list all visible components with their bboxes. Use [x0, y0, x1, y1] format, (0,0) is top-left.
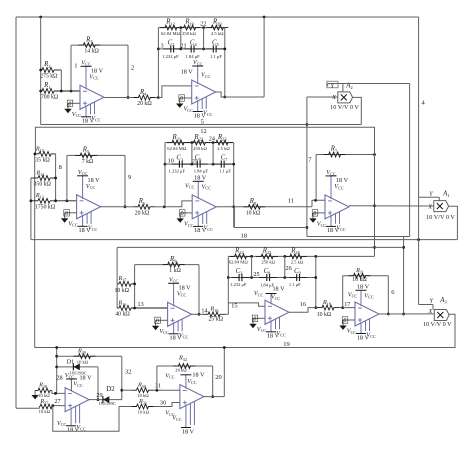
- node 28 label: [56, 375, 62, 382]
- svg-text:275 kΩ: 275 kΩ: [40, 73, 58, 79]
- op-amp U1: [64, 59, 104, 124]
- wire D2 riser node32: [120, 356, 123, 399]
- wire U8 minus: [343, 307, 355, 309]
- resistor R14: [31, 176, 56, 181]
- svg-text:10 kΩ: 10 kΩ: [317, 312, 332, 318]
- svg-text:17: 17: [344, 301, 350, 308]
- svg-text:62.84 MΩ: 62.84 MΩ: [161, 31, 181, 36]
- node 14 label: [201, 307, 207, 314]
- svg-text:20 kΩ: 20 kΩ: [135, 210, 150, 216]
- resistor R9 feedback: [135, 262, 199, 267]
- resistor R11 labels: [352, 267, 367, 283]
- resistor R19: [179, 25, 201, 30]
- resistor R26: [285, 254, 307, 259]
- resistor R21: [167, 140, 189, 145]
- node 9 label: [128, 174, 131, 181]
- wire RC2 top rail: [165, 141, 234, 144]
- node 7 label: [308, 157, 312, 164]
- resistor R25 labels: [261, 248, 275, 265]
- resistor R20: [206, 25, 228, 30]
- svg-text:20 kΩ: 20 kΩ: [175, 367, 187, 372]
- wire R9 right riser: [198, 265, 201, 316]
- svg-text:250 kΩ: 250 kΩ: [193, 146, 207, 151]
- wire bottom detour rail: [53, 406, 119, 432]
- resistor R1 labels: [41, 82, 59, 100]
- capacitor C1: [172, 161, 190, 168]
- wire U9 output: [89, 399, 98, 401]
- resistor R12 labels: [161, 19, 181, 36]
- capacitor C7: [214, 161, 232, 168]
- wire net18 riser: [233, 207, 235, 228]
- wire U8 output: [379, 313, 434, 315]
- node 11 label: [288, 198, 294, 205]
- resistor R1: [41, 89, 80, 94]
- wire U5 output: [349, 205, 434, 207]
- op-amp U10: [165, 371, 205, 435]
- svg-text:20 kΩ: 20 kΩ: [137, 101, 152, 107]
- wire R13R14 left vertical: [30, 178, 33, 240]
- wire net4 right vertical: [418, 17, 420, 197]
- svg-text:14: 14: [201, 307, 207, 314]
- diode D1: [57, 364, 98, 371]
- svg-text:1N1199C: 1N1199C: [98, 401, 116, 406]
- wire R11 left riser: [342, 276, 344, 308]
- node 27 label: [54, 398, 60, 405]
- op-amp U5: [309, 169, 349, 234]
- resistor R11 feedback: [343, 273, 389, 278]
- resistor R12: [160, 25, 182, 30]
- node 8 label: [59, 164, 62, 171]
- resistor R32 feedback: [157, 364, 213, 369]
- svg-text:250 kΩ: 250 kΩ: [182, 31, 196, 36]
- svg-text:12: 12: [200, 128, 206, 135]
- svg-text:29: 29: [96, 392, 102, 399]
- wire RC2 cap rail: [165, 163, 234, 166]
- wire net18 horizontal: [234, 227, 307, 229]
- resistor R2: [41, 68, 62, 73]
- svg-text:7 kΩ: 7 kΩ: [82, 159, 94, 165]
- svg-text:14 kΩ: 14 kΩ: [84, 49, 99, 55]
- wire R15R14 right riser node8: [54, 154, 57, 201]
- resistor R22: [188, 140, 210, 145]
- svg-text:1.232 μF: 1.232 μF: [169, 168, 186, 173]
- wire RC3 cap rail: [228, 276, 315, 279]
- resistor R16: [117, 306, 168, 311]
- capacitor C3: [232, 274, 250, 281]
- wire A3 output loop: [35, 314, 455, 347]
- wire A1 Y: [419, 197, 440, 200]
- diode D2: [98, 396, 122, 403]
- wire RC2 riser a: [191, 143, 193, 165]
- wire R28 gnd: [31, 391, 38, 400]
- svg-text:19: 19: [283, 341, 290, 348]
- wire U1 output: [104, 97, 128, 99]
- capacitor C1 labels: [169, 155, 186, 174]
- capacitor C5 labels: [210, 39, 222, 59]
- diode D2 labels: [98, 386, 116, 406]
- wire RC3 riser b: [284, 256, 286, 277]
- wire left border vertical: [15, 17, 17, 408]
- capacitor C3 labels: [230, 268, 247, 287]
- node 26 label: [286, 265, 292, 272]
- resistor R6 labels: [135, 198, 150, 216]
- resistor R10 labels: [208, 305, 223, 322]
- wire RC1 right riser: [223, 28, 226, 99]
- resistor R5 labels: [82, 147, 94, 165]
- node 16 label: [300, 301, 306, 308]
- wire R7 left riser: [315, 155, 317, 201]
- resistor R4 labels: [137, 89, 152, 107]
- svg-text:1 kΩ: 1 kΩ: [169, 268, 181, 274]
- svg-text:10 kΩ: 10 kΩ: [77, 360, 89, 365]
- capacitor C2: [163, 45, 181, 52]
- svg-text:13: 13: [138, 301, 144, 308]
- node 30 label: [160, 400, 166, 407]
- resistor R30 labels: [137, 381, 149, 398]
- svg-text:62.84 MΩ: 62.84 MΩ: [229, 260, 249, 265]
- resistor R9 labels: [169, 256, 181, 274]
- diode D1 labels: [67, 359, 87, 376]
- wire U3 output: [101, 206, 125, 208]
- wire A2 Y: [327, 81, 343, 92]
- capacitor C4: [184, 45, 202, 52]
- svg-text:1.232 μF: 1.232 μF: [230, 282, 247, 287]
- node 20 label: [215, 374, 222, 381]
- node 29 label: [96, 392, 102, 399]
- wire RC3 left riser: [227, 256, 230, 303]
- resistor R24: [230, 254, 252, 259]
- wire RC3 top rail: [228, 255, 374, 258]
- wire U6 output: [192, 313, 199, 315]
- wire R32 right riser: [211, 366, 214, 398]
- wire R30 riser to R32: [156, 366, 158, 390]
- svg-text:250 kΩ: 250 kΩ: [261, 260, 275, 265]
- resistor R7 feedback: [316, 152, 376, 157]
- node 6 label: [391, 289, 395, 296]
- wire RC1 riser 21: [180, 28, 182, 49]
- svg-text:31: 31: [155, 383, 161, 390]
- multiplier A1: [434, 201, 449, 212]
- resistor R17: [117, 282, 135, 287]
- svg-text:22: 22: [200, 21, 206, 28]
- wire L3 left riser to R17: [116, 248, 118, 284]
- wire RC2 right riser: [232, 143, 235, 228]
- svg-text:9: 9: [128, 174, 131, 181]
- node 22 label: [200, 21, 206, 28]
- capacitor C5: [206, 45, 224, 52]
- wire D1 right riser: [97, 367, 100, 401]
- node 25 label: [253, 271, 259, 278]
- wire RC1 top rail: [158, 26, 224, 29]
- op-amp U4: [177, 174, 217, 234]
- resistor R14 labels: [34, 169, 52, 187]
- op-amp U3: [61, 169, 101, 234]
- wire net19 left vertical: [34, 153, 37, 348]
- wire A3 output riser left: [55, 346, 58, 393]
- resistor R5 feedback: [67, 153, 125, 158]
- node 2 label: [131, 65, 134, 72]
- multiplier A3: [434, 310, 449, 321]
- wire R11 right riser: [387, 276, 390, 316]
- svg-text:1.84 μF: 1.84 μF: [194, 168, 209, 173]
- capacitor C9 labels: [289, 268, 302, 287]
- svg-text:16: 16: [300, 301, 306, 308]
- node 24 label: [209, 136, 215, 143]
- svg-text:2: 2: [131, 65, 134, 72]
- svg-text:25: 25: [253, 271, 259, 278]
- wire RC1 cap rail: [158, 48, 224, 51]
- resistor R8 labels: [246, 198, 261, 216]
- svg-text:1750 kΩ: 1750 kΩ: [35, 205, 56, 211]
- node 31 label: [155, 383, 161, 390]
- wire U4 output: [216, 206, 312, 208]
- resistor R3 labels: [84, 36, 99, 54]
- node 19 label: [283, 341, 290, 348]
- node 10 label: [168, 157, 174, 164]
- svg-text:26: 26: [286, 265, 292, 272]
- svg-text:18 V: 18 V: [357, 283, 370, 290]
- svg-text:10 V/V 0 V: 10 V/V 0 V: [330, 104, 359, 111]
- multiplier A3 labels: [423, 297, 452, 328]
- wire R4 to U2 jog: [158, 86, 191, 98]
- wire R8 to U5 jog: [312, 199, 325, 207]
- resistor R20 labels: [211, 19, 224, 36]
- resistor R13: [31, 198, 77, 203]
- wire R6 to U4 jog: [164, 201, 192, 207]
- capacitor C6: [190, 161, 208, 168]
- resistor R3 feedback: [71, 43, 128, 48]
- resistor R30: [122, 388, 180, 393]
- svg-text:350 kΩ: 350 kΩ: [34, 182, 52, 188]
- wire RC3 riser a: [251, 256, 253, 277]
- multiplier A1 labels: [426, 190, 455, 221]
- node 1 label: [74, 63, 77, 70]
- resistor R28 labels: [38, 382, 50, 399]
- wire U7 output: [289, 308, 316, 313]
- wire RC3 right riser: [314, 256, 317, 309]
- svg-text:0: 0: [254, 316, 257, 322]
- wire R17 R16 risers: [117, 284, 136, 310]
- resistor R15 labels: [35, 145, 51, 163]
- op-amp U7: [249, 286, 289, 340]
- svg-text:62.84 MΩ: 62.84 MΩ: [167, 146, 187, 151]
- node 32 label: [125, 368, 132, 375]
- resistor R2 labels: [40, 61, 58, 79]
- resistor R24 labels: [229, 248, 249, 265]
- svg-text:20: 20: [215, 374, 222, 381]
- svg-text:10 V/V 0 V: 10 V/V 0 V: [426, 214, 455, 221]
- resistor R8: [243, 204, 265, 209]
- wire U2 out riser to top rail: [263, 17, 265, 97]
- wire A1 to A3 vertical: [418, 197, 420, 304]
- capacitor C8 labels: [260, 268, 275, 288]
- wire net4 top rail: [16, 16, 419, 19]
- capacitor C9: [289, 274, 307, 281]
- wire R10 riser node15: [227, 303, 229, 314]
- capacitor C8: [259, 274, 277, 281]
- svg-text:18 V: 18 V: [272, 286, 285, 293]
- node 1 riser: [70, 45, 72, 91]
- wire left border to R27: [16, 407, 37, 409]
- resistor R23: [211, 140, 233, 145]
- wire A2 X riser: [306, 97, 309, 237]
- resistor R18 labels: [317, 299, 332, 318]
- multiplier A2 labels: [330, 83, 359, 112]
- resistor R13 labels: [35, 192, 56, 211]
- resistor R4: [128, 95, 160, 100]
- svg-text:10 kΩ: 10 kΩ: [138, 409, 150, 414]
- wire A2 Y to right vertical: [343, 83, 410, 85]
- svg-text:2.5 kΩ: 2.5 kΩ: [291, 260, 304, 265]
- svg-text:0: 0: [344, 318, 347, 324]
- svg-text:18 V: 18 V: [181, 69, 194, 76]
- wire R2 right riser: [60, 70, 63, 92]
- wire L3 horizontal: [117, 246, 404, 248]
- svg-text:2.5 kΩ: 2.5 kΩ: [211, 31, 224, 36]
- resistor R29 labels: [77, 347, 89, 364]
- resistor R25: [256, 254, 278, 259]
- wire right vertical to row3: [402, 237, 405, 316]
- wire net R15 feedback rail: [35, 127, 374, 154]
- svg-text:10 kΩ: 10 kΩ: [39, 409, 51, 414]
- resistor R28: [35, 388, 65, 395]
- wire U10 output: [204, 396, 225, 398]
- svg-text:1.1 μF: 1.1 μF: [210, 54, 222, 59]
- resistor R27: [37, 404, 65, 409]
- node 13 label: [138, 301, 144, 308]
- resistor R16 labels: [115, 299, 130, 317]
- node 18 label: [240, 232, 247, 239]
- node 15 label: [231, 302, 237, 309]
- resistor R19 labels: [182, 19, 196, 36]
- svg-text:D1: D1: [67, 359, 75, 366]
- svg-text:18 V: 18 V: [194, 174, 207, 181]
- svg-text:8: 8: [59, 164, 62, 171]
- op-amp U9: [57, 388, 89, 434]
- resistor R7 labels: [330, 146, 338, 154]
- svg-text:0: 0: [180, 96, 183, 102]
- wire long rail y124 R1R2 to A2: [41, 124, 362, 126]
- resistor R10: [199, 312, 228, 317]
- wire A1 output loop: [449, 206, 458, 239]
- wire R9 left riser: [133, 265, 136, 286]
- wire input vertical x40: [39, 17, 42, 125]
- wire RC1 riser 22: [203, 28, 205, 49]
- wire to U7 jog: [228, 303, 265, 306]
- svg-text:30: 30: [160, 400, 166, 407]
- resistor R18: [316, 305, 344, 310]
- svg-text:18 V: 18 V: [79, 375, 92, 382]
- svg-text:40 kΩ: 40 kΩ: [115, 312, 130, 318]
- svg-text:18 V: 18 V: [182, 428, 195, 435]
- wire A3 Y: [419, 305, 433, 310]
- resistor R15: [35, 152, 55, 157]
- wire A2 output: [353, 97, 362, 124]
- svg-text:1: 1: [74, 63, 77, 70]
- wire A2 X input: [307, 96, 338, 98]
- svg-text:0: 0: [181, 211, 184, 217]
- wire L2 from R13R14 to A1 loop: [31, 238, 458, 241]
- wire U2 output step: [216, 92, 264, 97]
- svg-text:0: 0: [69, 101, 72, 107]
- svg-text:11: 11: [288, 198, 294, 205]
- node 21 label: [180, 43, 186, 50]
- capacitor C4 labels: [185, 39, 200, 59]
- resistor R22 labels: [193, 134, 207, 151]
- wire right vertical A2Y: [409, 84, 411, 237]
- svg-text:D2: D2: [106, 386, 115, 393]
- svg-text:0: 0: [314, 211, 317, 217]
- svg-text:27: 27: [54, 398, 60, 405]
- svg-text:1.1 μF: 1.1 μF: [219, 168, 231, 173]
- svg-text:0: 0: [156, 318, 159, 324]
- resistor R23 labels: [217, 134, 230, 151]
- U9 vcc top: [65, 372, 92, 391]
- resistor R6: [125, 204, 166, 209]
- node 3 label: [161, 43, 164, 50]
- wire R5 left riser: [66, 155, 68, 200]
- svg-text:700 kΩ: 700 kΩ: [41, 95, 59, 101]
- svg-text:0: 0: [65, 211, 68, 217]
- wire U10 out riser: [223, 346, 226, 397]
- resistor R21 labels: [167, 134, 187, 151]
- node 2 riser: [127, 45, 130, 99]
- op-amp U8: [339, 283, 379, 341]
- resistor R26 labels: [290, 248, 304, 265]
- svg-text:28: 28: [56, 375, 62, 382]
- resistor R29 feedback: [57, 354, 122, 359]
- node 5 label: [201, 119, 204, 126]
- node 17 label: [344, 301, 350, 308]
- wire R5 right riser node9: [124, 155, 127, 208]
- node 4 label: [422, 100, 426, 107]
- op-amp U6: [152, 276, 192, 341]
- resistor R32 labels: [175, 355, 187, 373]
- resistor R31: [119, 403, 180, 409]
- svg-text:25 kΩ: 25 kΩ: [208, 316, 223, 322]
- capacitor C7 labels: [219, 155, 231, 174]
- wire RC1 left riser node3: [157, 28, 160, 98]
- svg-text:10 kΩ: 10 kΩ: [246, 211, 261, 217]
- capacitor C2 labels: [162, 39, 179, 59]
- resistor R31 labels: [138, 398, 150, 415]
- resistor R17 labels: [114, 275, 129, 294]
- svg-text:1.232 μF: 1.232 μF: [162, 54, 179, 59]
- svg-text:18: 18: [240, 232, 247, 239]
- node 25b label: [192, 159, 198, 165]
- resistor R27 labels: [39, 398, 51, 414]
- svg-text:32: 32: [125, 368, 132, 375]
- svg-text:18 V: 18 V: [192, 371, 205, 378]
- multiplier A2: [338, 92, 353, 103]
- svg-text:35 kΩ: 35 kΩ: [35, 157, 50, 163]
- svg-text:1.1 μF: 1.1 μF: [289, 282, 301, 287]
- svg-text:10 V/V 0 V: 10 V/V 0 V: [423, 321, 452, 328]
- wire h1 A2X to A2Y vertical: [307, 236, 410, 238]
- svg-text:10: 10: [168, 157, 174, 164]
- node 12 label: [200, 128, 206, 135]
- svg-text:24: 24: [209, 136, 215, 143]
- op-amp U2: [176, 59, 216, 119]
- capacitor C6 labels: [194, 155, 209, 174]
- svg-text:10 kΩ: 10 kΩ: [352, 277, 367, 283]
- wire R7 right riser / U5 net: [373, 127, 376, 256]
- wire RC2 riser b: [212, 143, 214, 165]
- svg-text:2.5 kΩ: 2.5 kΩ: [217, 146, 230, 151]
- wire RC2 left riser: [164, 143, 167, 207]
